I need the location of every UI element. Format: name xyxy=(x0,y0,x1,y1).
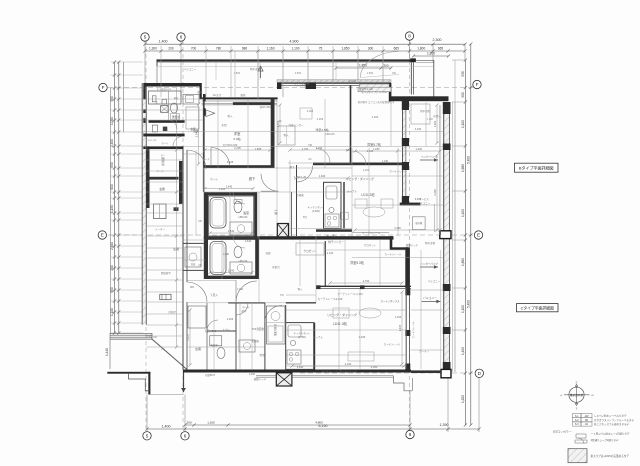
bathtub 1 xyxy=(210,198,226,229)
kitchen counter upper xyxy=(324,182,342,228)
north-east corner step xyxy=(389,83,392,102)
east exterior wall xyxy=(443,102,445,372)
svg-text:テーブル: テーブル xyxy=(313,335,323,339)
svg-text:4区通りシープ2通りタデ: 4区通りシープ2通りタデ xyxy=(591,438,619,442)
svg-text:600: 600 xyxy=(110,184,114,190)
svg-text:Th4洗面化: Th4洗面化 xyxy=(252,327,265,331)
svg-text:物干ハンガー: 物干ハンガー xyxy=(328,240,344,244)
svg-text:廊下: 廊下 xyxy=(249,176,256,181)
svg-text:リビング・ダイニング: リビング・ダイニング xyxy=(327,312,357,317)
svg-text:1,400: 1,400 xyxy=(461,209,465,217)
grid circle 5 top xyxy=(141,33,149,41)
svg-text:1,100: 1,100 xyxy=(292,46,300,50)
svg-text:室内物干 エアコン先行配管壁仕予: 室内物干 エアコン先行配管壁仕予 xyxy=(358,100,395,104)
svg-text:リビング・ダイニング: リビング・ダイニング xyxy=(346,177,374,181)
svg-text:バルコニー: バルコニー xyxy=(184,67,197,71)
svg-text:ホール: ホール xyxy=(242,305,250,309)
svg-text:S-2: S-2 xyxy=(575,419,579,422)
svg-text:5,400: 5,400 xyxy=(466,156,470,164)
svg-text:カーテンレール: カーテンレール xyxy=(385,252,402,256)
svg-text:2,860: 2,860 xyxy=(295,71,302,75)
bedroom1 west wall piers + wedge xyxy=(203,94,206,102)
upper hall door arc xyxy=(261,174,278,192)
svg-text:PS: PS xyxy=(161,348,165,351)
pipe shaft X lower (below south wall) xyxy=(276,373,292,386)
svg-text:4,900: 4,900 xyxy=(290,40,299,44)
svg-text:1,100: 1,100 xyxy=(461,305,465,313)
svg-text:3,180: 3,180 xyxy=(371,365,378,369)
svg-text:6.0帖: 6.0帖 xyxy=(233,136,240,141)
svg-text:1,150: 1,150 xyxy=(110,205,114,213)
svg-text:バルコニー: バルコニー xyxy=(423,296,437,300)
svg-text:キッチンセット: キッチンセット xyxy=(308,205,325,209)
svg-text:バルコニー: バルコニー xyxy=(418,202,431,205)
balcony left edge xyxy=(156,62,158,83)
svg-text:カーテンレール 2,100: カーテンレール 2,100 xyxy=(337,292,363,296)
bedroom2/3 divider wall xyxy=(350,85,352,165)
svg-text:S-3: S-3 xyxy=(575,423,579,426)
svg-text:1,160: 1,160 xyxy=(207,420,215,424)
svg-text:カーテンレール: カーテンレール xyxy=(322,369,339,373)
legend table xyxy=(573,414,582,418)
grid line vertical xyxy=(145,40,147,432)
svg-text:宅配BOX: 宅配BOX xyxy=(205,373,216,377)
svg-text:下足入900: 下足入900 xyxy=(204,329,217,333)
grid circle E left xyxy=(98,231,106,239)
toilet 2 xyxy=(234,246,242,258)
svg-text:物入: 物入 xyxy=(298,287,303,291)
svg-text:1,850: 1,850 xyxy=(342,46,350,50)
svg-text:洗面室: 洗面室 xyxy=(172,115,181,119)
svg-text:MB: MB xyxy=(190,286,194,289)
svg-text:6: 6 xyxy=(180,35,183,40)
svg-text:UB1216: UB1216 xyxy=(325,133,335,136)
lower washroom walls xyxy=(235,303,237,370)
lower entry door arcs xyxy=(236,280,257,302)
svg-text:UB1216: UB1216 xyxy=(239,260,248,263)
svg-text:UB: UB xyxy=(198,264,202,267)
svg-text:SD: SD xyxy=(585,419,589,422)
molding box under wall C xyxy=(360,84,390,90)
grid circle D right xyxy=(475,369,483,377)
lower washbasin unit xyxy=(267,306,286,344)
svg-text:玄関: 玄関 xyxy=(159,187,165,191)
svg-text:3,180: 3,180 xyxy=(394,226,401,230)
corridor cross lines xyxy=(146,149,183,151)
svg-text:2,405: 2,405 xyxy=(307,110,314,113)
svg-text:4,100: 4,100 xyxy=(345,362,352,366)
svg-text:浴室: 浴室 xyxy=(243,210,249,215)
svg-text:UB: UB xyxy=(198,220,202,223)
window pier xyxy=(306,83,317,90)
lower washroom fixtures xyxy=(210,336,222,346)
svg-text:5: 5 xyxy=(146,433,149,438)
svg-text:1,300: 1,300 xyxy=(427,119,433,121)
B-unit genkan walls xyxy=(146,146,149,208)
svg-text:カーテンレール: カーテンレール xyxy=(362,231,381,235)
east wall piers xyxy=(443,102,451,114)
bedroom2 closet xyxy=(278,126,295,145)
outdoor unit box xyxy=(412,217,425,230)
grid circle 8 top xyxy=(405,32,413,40)
top dimension row 2 xyxy=(145,50,465,52)
grid line E xyxy=(108,234,473,236)
svg-text:カーテンボックス: カーテンボックス xyxy=(380,299,400,303)
svg-text:メーター: メーター xyxy=(155,227,166,231)
svg-text:8: 8 xyxy=(409,432,412,437)
svg-text:4,800: 4,800 xyxy=(315,420,323,424)
svg-text:F: F xyxy=(476,82,479,87)
svg-text:カーテンレール: カーテンレール xyxy=(411,321,415,338)
svg-text:1,100: 1,100 xyxy=(237,288,244,291)
bath1 room xyxy=(209,196,255,236)
interior dimension chains xyxy=(205,149,270,151)
bathtub 2 xyxy=(210,242,226,275)
svg-text:1,403: 1,403 xyxy=(227,317,234,321)
left dimension column xyxy=(110,88,112,333)
svg-text:1,640: 1,640 xyxy=(245,239,252,243)
svg-text:冷蔵庫: 冷蔵庫 xyxy=(296,193,304,197)
south-east balcony step xyxy=(394,376,413,391)
svg-text:玄関: 玄関 xyxy=(195,346,201,351)
svg-text:2,700: 2,700 xyxy=(363,279,370,283)
faint horizontal construction lines xyxy=(183,146,443,148)
faint vertical construction lines xyxy=(202,99,204,192)
svg-text:キッチンセット: キッチンセット xyxy=(294,331,311,335)
toilet 1 xyxy=(234,201,242,213)
svg-text:2,150: 2,150 xyxy=(316,146,323,150)
svg-text:物入: 物入 xyxy=(227,114,233,118)
svg-text:布団入: 布団入 xyxy=(433,114,441,118)
window frame marks on curtain wall xyxy=(316,285,321,289)
svg-text:AD: AD xyxy=(153,336,157,339)
right dimension column xyxy=(464,60,466,425)
svg-text:洋室5.7帖: 洋室5.7帖 xyxy=(367,142,382,147)
svg-text:2,405: 2,405 xyxy=(433,189,437,196)
svg-text:1,160: 1,160 xyxy=(267,46,275,50)
svg-text:780: 780 xyxy=(216,46,222,50)
lower kitchen xyxy=(314,323,316,370)
grid circle 6 bottom xyxy=(181,432,189,440)
svg-text:1,400: 1,400 xyxy=(219,187,226,191)
grid circle 8 bottom xyxy=(406,430,414,438)
svg-text:1,540: 1,540 xyxy=(228,268,235,272)
grid line F xyxy=(108,87,473,89)
west wall window piers xyxy=(143,83,145,100)
svg-text:1,970: 1,970 xyxy=(186,334,190,341)
north wall C sill lines xyxy=(277,82,391,84)
diagonal boundary xyxy=(152,339,187,369)
svg-text:5,400: 5,400 xyxy=(466,300,470,308)
B-unit powder room left of bath2 xyxy=(183,242,204,244)
svg-text:730: 730 xyxy=(346,149,351,152)
svg-text:300: 300 xyxy=(392,72,397,75)
svg-text:洋室: 洋室 xyxy=(234,131,241,136)
svg-text:2,303: 2,303 xyxy=(372,115,379,119)
svg-text:2,340: 2,340 xyxy=(194,130,198,137)
svg-text:東スラブは+1815の実置あるタデ: 東スラブは+1815の実置あるタデ xyxy=(591,454,630,458)
grid line D xyxy=(300,372,473,374)
svg-text:カーテンレール: カーテンレール xyxy=(339,369,357,373)
svg-text:6: 6 xyxy=(184,433,187,438)
balcony slab hatch along north wall C xyxy=(277,80,391,83)
upper entry door arc xyxy=(187,150,206,169)
svg-text:各こされっスラル嵌めスタモデ: 各こされっスラル嵌めスタモデ xyxy=(594,422,630,426)
svg-text:1,850: 1,850 xyxy=(234,71,241,75)
compass symbol xyxy=(569,387,584,402)
svg-text:AC: AC xyxy=(308,158,312,161)
svg-text:開放廊下: 開放廊下 xyxy=(161,271,172,275)
svg-text:1,440: 1,440 xyxy=(105,348,109,356)
svg-text:洋室ハンガー: 洋室ハンガー xyxy=(288,123,304,127)
svg-text:665: 665 xyxy=(394,46,400,50)
closet wall xyxy=(324,241,326,286)
grid circle 6 top xyxy=(177,33,185,41)
svg-text:1,000: 1,000 xyxy=(110,117,114,125)
svg-text:1,640: 1,640 xyxy=(223,253,230,256)
bottom dimension row xyxy=(147,428,479,430)
meter box in corridor xyxy=(160,294,171,299)
svg-text:洗濯機: 洗濯機 xyxy=(251,339,259,343)
svg-text:8: 8 xyxy=(408,34,411,39)
svg-text:1,230: 1,230 xyxy=(416,147,423,151)
svg-text:1,868: 1,868 xyxy=(255,147,262,151)
svg-text:1,100: 1,100 xyxy=(363,169,370,172)
svg-text:クロゼット: クロゼット xyxy=(304,249,317,253)
washbasin 2 xyxy=(230,262,252,274)
svg-text:2,405: 2,405 xyxy=(398,324,402,331)
svg-text:腰窓H=1,100: 腰窓H=1,100 xyxy=(359,87,374,91)
svg-text:PS: PS xyxy=(280,294,284,297)
svg-text:1,400: 1,400 xyxy=(159,40,168,44)
svg-text:665: 665 xyxy=(438,46,444,50)
svg-text:1,230: 1,230 xyxy=(382,160,389,163)
kitchen south wall xyxy=(316,229,352,232)
bath door arcs xyxy=(233,192,245,204)
svg-text:洗面: 洗面 xyxy=(265,251,271,255)
cluster extra details xyxy=(168,91,170,120)
molding box top xyxy=(358,87,391,92)
south-west wing wall xyxy=(107,372,150,374)
svg-text:300: 300 xyxy=(383,64,388,68)
top dimension row 1 xyxy=(145,43,465,45)
svg-text:洋室4.5帖: 洋室4.5帖 xyxy=(315,127,328,132)
svg-text:下足入: 下足入 xyxy=(210,293,218,297)
svg-text:LD: LD xyxy=(585,423,588,426)
balcony outer right edge xyxy=(433,60,435,96)
pipe shaft X upper xyxy=(277,224,288,238)
svg-text:洗面室: 洗面室 xyxy=(210,343,218,347)
svg-text:1,100: 1,100 xyxy=(395,315,402,319)
bedroom1 door arc xyxy=(211,148,230,167)
svg-text:物干金物: 物干金物 xyxy=(425,241,436,245)
svg-text:900: 900 xyxy=(461,92,465,98)
north arrow on balcony xyxy=(260,67,262,78)
svg-text:1,180: 1,180 xyxy=(373,147,380,151)
svg-text:740: 740 xyxy=(308,144,313,147)
svg-text:AC: AC xyxy=(278,120,282,123)
balcony top dividers xyxy=(215,62,217,80)
svg-text:1,100: 1,100 xyxy=(461,120,465,128)
bedroom1 walls xyxy=(203,165,275,168)
upper unit south wall xyxy=(259,236,394,239)
svg-text:Cタイプ平面詳細図: Cタイプ平面詳細図 xyxy=(521,305,554,310)
svg-text:200: 200 xyxy=(168,46,174,50)
south wall xyxy=(183,370,411,373)
grid circle F left xyxy=(99,83,107,91)
upper unit east wall with window piers xyxy=(402,101,404,204)
svg-text:大壁造?: 大壁造? xyxy=(168,310,177,314)
svg-text:置場: 置場 xyxy=(259,353,265,357)
bedroom3 door arc xyxy=(352,151,366,165)
svg-text:一ト窓ジバル防水シープ2通りタデ: 一ト窓ジバル防水シープ2通りタデ xyxy=(591,431,630,435)
svg-text:避難ハッチ: 避難ハッチ xyxy=(254,377,267,381)
svg-text:物干金物: 物干金物 xyxy=(420,109,430,113)
svg-text:避難ハッチ: 避難ハッチ xyxy=(406,243,419,247)
svg-text:W=1,780: W=1,780 xyxy=(148,140,158,142)
svg-text:2,303: 2,303 xyxy=(317,117,324,121)
balcony right edge walls xyxy=(410,62,412,95)
north wall B (recessed) xyxy=(202,97,278,99)
svg-text:530: 530 xyxy=(461,71,465,77)
svg-text:ホール: ホール xyxy=(210,177,218,181)
svg-text:カーテンレール: カーテンレール xyxy=(389,169,407,173)
svg-text:1,860: 1,860 xyxy=(461,258,465,266)
parapet end block xyxy=(410,58,416,62)
svg-text:2,400: 2,400 xyxy=(110,139,114,147)
svg-text:カーテン: カーテン xyxy=(419,349,430,353)
hanger pipe arrow upper right xyxy=(420,266,438,268)
wall under cluster xyxy=(144,134,185,137)
svg-text:200: 200 xyxy=(186,420,191,424)
svg-text:(2,400): (2,400) xyxy=(312,210,320,213)
svg-text:2,100: 2,100 xyxy=(327,251,334,255)
washing machine pan with cross xyxy=(161,106,169,113)
hatched legend box xyxy=(568,449,587,463)
LDK entry door arc xyxy=(297,166,313,183)
balcony parapet top xyxy=(157,59,414,61)
svg-text:300: 300 xyxy=(368,46,374,50)
lower unit hall walls xyxy=(285,305,287,323)
top sub dimension near balcony xyxy=(336,67,391,69)
svg-text:AC先行: AC先行 xyxy=(213,93,222,97)
svg-text:バルコニー: バルコニー xyxy=(428,279,441,283)
right small room of cluster xyxy=(183,94,199,104)
svg-text:1,860: 1,860 xyxy=(367,71,374,75)
top-left sanitary rooms xyxy=(149,91,182,104)
svg-text:1,400: 1,400 xyxy=(433,120,437,127)
svg-text:1,680: 1,680 xyxy=(461,164,465,172)
lower unit east window wall xyxy=(405,288,407,370)
bedroom2 door arc xyxy=(316,149,330,163)
svg-text:アルミ手摺: アルミ手摺 xyxy=(294,83,307,87)
svg-text:Bタイプ平面詳細図: Bタイプ平面詳細図 xyxy=(519,164,554,170)
svg-text:2,150: 2,150 xyxy=(302,147,309,151)
svg-text:1,400: 1,400 xyxy=(461,347,465,355)
svg-text:R冷: R冷 xyxy=(303,215,308,219)
right balcony floor lines xyxy=(452,102,454,372)
svg-text:1,390: 1,390 xyxy=(440,423,449,427)
bedroom3 south window wall xyxy=(316,285,411,287)
extra tick marks top row2 verticals xyxy=(160,46,162,97)
svg-text:しゃへい防水シーベルもタデ: しゃへい防水シーベルもタデ xyxy=(594,414,627,418)
svg-text:1,930: 1,930 xyxy=(319,174,326,178)
svg-text:F: F xyxy=(102,85,105,90)
svg-text:玄関: 玄関 xyxy=(173,246,179,251)
svg-text:洗面化粧台: 洗面化粧台 xyxy=(273,323,277,336)
bedroom3 south wall / LDK top xyxy=(313,163,402,166)
north wall A (top-left) xyxy=(144,83,202,87)
wall between sanitary rooms xyxy=(149,120,185,123)
lower unit bath xyxy=(205,236,259,239)
C-unit LD entry arc xyxy=(265,305,282,322)
svg-text:1,400: 1,400 xyxy=(162,424,171,428)
svg-text:2,830: 2,830 xyxy=(297,365,304,369)
svg-text:ハンガーパイプ: ハンガーパイプ xyxy=(420,261,438,265)
west lower band xyxy=(110,332,152,334)
svg-text:1,300: 1,300 xyxy=(149,46,157,50)
svg-text:w=600: w=600 xyxy=(348,80,356,83)
svg-text:(2,550): (2,550) xyxy=(298,336,306,339)
svg-text:非常コック(?) —: 非常コック(?) — xyxy=(553,429,572,433)
grid circle 5 bottom xyxy=(143,432,151,440)
svg-text:化粧台: 化粧台 xyxy=(272,265,280,269)
svg-text:2,405: 2,405 xyxy=(227,160,234,164)
svg-text:窓W1,690: 窓W1,690 xyxy=(259,105,271,109)
svg-text:廊下: 廊下 xyxy=(241,309,247,313)
svg-text:75: 75 xyxy=(319,46,323,50)
svg-text:カーテンレール: カーテンレール xyxy=(384,342,401,346)
kitchen counter lower xyxy=(286,323,314,370)
hanger arrow on east balcony xyxy=(420,159,438,161)
washbasin 1 xyxy=(230,222,252,235)
north wall step xyxy=(200,83,202,99)
upper unit bath xyxy=(205,192,257,195)
escape hatch arrow lower right xyxy=(422,300,441,302)
svg-text:テーブル: テーブル xyxy=(347,189,357,193)
east wall column D xyxy=(441,369,451,377)
west wall (corridor outer) xyxy=(141,83,143,325)
svg-text:2,200: 2,200 xyxy=(249,373,256,376)
grid line vertical xyxy=(409,40,411,432)
svg-text:物入: 物入 xyxy=(283,133,289,137)
svg-text:980: 980 xyxy=(242,46,248,50)
svg-text:E: E xyxy=(477,233,480,238)
svg-text:S-1: S-1 xyxy=(575,415,579,418)
svg-text:トイレ: トイレ xyxy=(222,328,230,331)
service balcony end wall xyxy=(400,203,421,206)
svg-text:配管: 配管 xyxy=(240,93,246,97)
svg-text:廊下: 廊下 xyxy=(290,165,295,169)
svg-text:950: 950 xyxy=(110,162,114,168)
top-right hanger box on balcony xyxy=(411,104,430,124)
window band below wall B xyxy=(202,100,277,102)
svg-text:廊下: 廊下 xyxy=(274,209,278,215)
svg-text:LD11.3帖: LD11.3帖 xyxy=(333,321,348,326)
svg-text:LD11.3帖: LD11.3帖 xyxy=(361,192,375,197)
svg-text:5: 5 xyxy=(144,35,147,40)
corridor top wall xyxy=(147,146,183,149)
label box C type xyxy=(517,304,559,312)
svg-text:E: E xyxy=(101,233,104,238)
svg-text:引戸W=1,640: 引戸W=1,640 xyxy=(223,143,238,147)
svg-text:合せガラスリトランアルーベもタデ: 合せガラスリトランアルーベもタデ xyxy=(594,418,634,422)
svg-text:敷地基準点: 敷地基準点 xyxy=(570,393,583,397)
balcony lines below south wall xyxy=(256,375,394,377)
svg-text:1,540: 1,540 xyxy=(228,229,235,233)
svg-text:ポーチ: ポーチ xyxy=(202,157,210,161)
refrigerator xyxy=(340,212,348,219)
